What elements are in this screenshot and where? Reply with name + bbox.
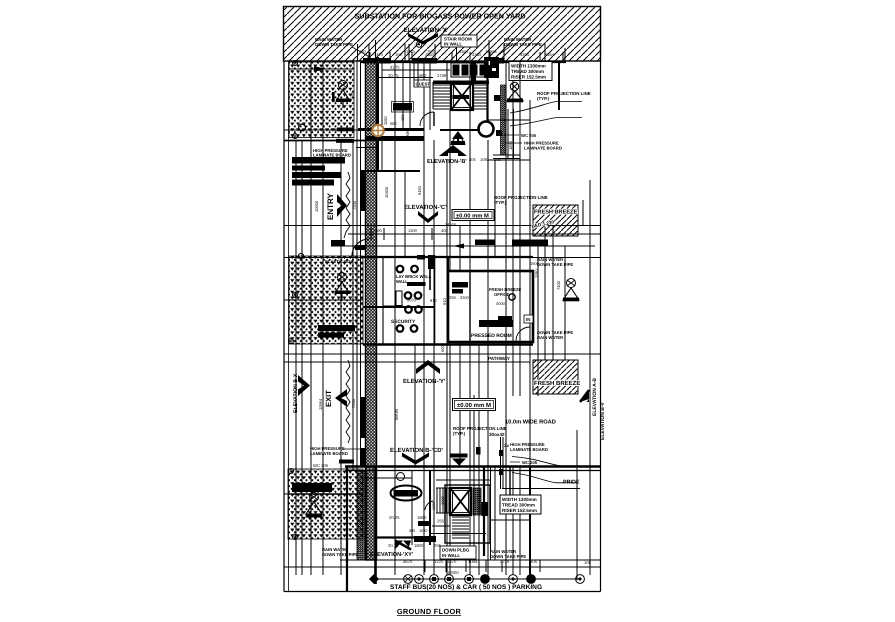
svg-text:1739: 1739	[437, 73, 447, 78]
survey marker B2	[288, 338, 293, 343]
bottom block right wall	[529, 466, 531, 580]
top block top wall	[360, 61, 566, 63]
svg-text:4364: 4364	[520, 52, 530, 57]
svg-text:20.75: 20.75	[389, 515, 400, 520]
svg-text:105: 105	[530, 559, 538, 564]
elevation B-X arrow	[298, 375, 310, 396]
hatched wall right of lift bottom	[473, 488, 481, 515]
svg-text:MC 207: MC 207	[331, 127, 346, 132]
stair room in wall box	[441, 35, 477, 47]
grid bubble diamond	[369, 574, 379, 584]
middle block top wall	[363, 256, 533, 258]
office door arc	[516, 327, 530, 341]
svg-text:LAMINATE BOARD: LAMINATE BOARD	[310, 451, 348, 456]
dark room top right	[484, 57, 499, 78]
down plbg in wall box	[440, 546, 476, 559]
svg-text:RISER 152.5mm: RISER 152.5mm	[511, 75, 546, 80]
roof curve lower 1	[512, 457, 580, 466]
svg-text:WIDTH 1300mm: WIDTH 1300mm	[502, 497, 537, 502]
top block lower wall line 2	[356, 147, 378, 149]
legend black bars block	[292, 157, 345, 186]
svg-text:ELEVATION B-V: ELEVATION B-V	[600, 401, 606, 440]
black bar at stipple A bottom	[337, 128, 354, 132]
svg-text:1150: 1150	[351, 92, 355, 100]
grid bubble 5	[465, 575, 474, 584]
toilet row 1	[397, 266, 418, 273]
vertical dim strip at 500	[501, 437, 504, 489]
svg-text:10.0m WIDE ROAD: 10.0m WIDE ROAD	[505, 420, 556, 426]
stipple A arrow marker	[314, 66, 327, 72]
svg-text:±0.00 mm M: ±0.00 mm M	[457, 402, 491, 409]
black bar in stipple B	[318, 325, 355, 331]
landing bar above lift	[433, 81, 489, 85]
spec box bottom	[500, 495, 541, 514]
survey marker B1	[292, 292, 297, 297]
svg-text:IN: IN	[526, 317, 530, 322]
black tick mid	[339, 460, 354, 464]
svg-text:ELEVATION-'C': ELEVATION-'C'	[404, 204, 447, 211]
long vertical gridlines	[296, 61, 590, 580]
fresh breeze hatch block lower	[533, 360, 578, 394]
svg-text:1094: 1094	[468, 559, 478, 564]
elevation-x arrow	[408, 33, 438, 45]
vertical black bar exit zone	[360, 397, 365, 438]
right dim strip verticals	[493, 109, 520, 159]
svg-text:(TYP.): (TYP.)	[453, 431, 466, 436]
roof curve lower 2	[512, 473, 578, 483]
stipple C inner line	[288, 493, 363, 495]
svg-text:ELEVATION-'Y': ELEVATION-'Y'	[403, 378, 446, 385]
wall segment y129 right	[440, 129, 480, 131]
black vertical bar right top	[476, 447, 481, 455]
top block left wall	[376, 57, 379, 171]
svg-text:7400: 7400	[556, 280, 561, 290]
svg-text:RISER 152.5mm: RISER 152.5mm	[502, 508, 537, 513]
svg-text:ELEVATION-'XY': ELEVATION-'XY'	[370, 552, 414, 558]
grid bubble 2	[415, 575, 424, 584]
tree symbol zone A	[336, 81, 351, 109]
stipple zone A	[289, 62, 354, 138]
svg-text:10964: 10964	[318, 398, 323, 410]
black bar in stipple C	[292, 483, 332, 492]
tree symbol zone B	[335, 273, 350, 301]
small marker triangle near 465	[451, 454, 468, 458]
dim line bottom	[405, 566, 530, 568]
treads below lift	[452, 517, 469, 538]
black bar above left wall	[360, 448, 366, 467]
svg-text:1009: 1009	[440, 495, 445, 505]
tree triangle right	[507, 91, 523, 101]
svg-text:LAMINATE BOARD: LAMINATE BOARD	[524, 146, 562, 151]
svg-text:1009: 1009	[432, 502, 436, 510]
black bar under wc wall	[366, 136, 424, 141]
lift core bottom	[450, 488, 471, 515]
black value rect	[418, 521, 431, 526]
black bar mid right	[512, 240, 548, 246]
svg-text:TREAD 300mm: TREAD 300mm	[511, 69, 544, 74]
tick marks mid row	[371, 228, 447, 240]
office outer wall	[448, 271, 533, 342]
desk outline	[392, 102, 414, 113]
elevation-x circle symbol	[416, 42, 422, 48]
high pressure note right	[505, 142, 522, 144]
black bar above pressed	[479, 320, 513, 327]
svg-text:DOWN TAKE PIPE: DOWN TAKE PIPE	[322, 552, 358, 557]
svg-text:4000: 4000	[496, 301, 506, 306]
small tree symbol in court	[451, 133, 465, 145]
svg-text:2250: 2250	[447, 295, 457, 300]
IN box	[524, 315, 533, 323]
level box 0.00 lower	[453, 399, 496, 411]
svg-text:30ox42: 30ox42	[489, 432, 505, 437]
svg-text:10000: 10000	[314, 200, 319, 212]
title hatch band	[284, 7, 601, 62]
top wall blob	[417, 255, 425, 260]
survey marker C2	[292, 534, 297, 539]
svg-text:31.75: 31.75	[390, 66, 400, 70]
elevation A-B arrow	[580, 390, 589, 402]
svg-text:TREAD 300mm: TREAD 300mm	[502, 503, 535, 508]
wall right of lift thick	[558, 62, 560, 110]
elevation-C arrow	[418, 211, 438, 223]
right border line	[600, 61, 602, 592]
svg-text:1860: 1860	[508, 140, 513, 150]
wavy expansion line upper	[344, 172, 350, 238]
grid bubble line	[374, 578, 580, 580]
orange utility circle	[372, 125, 384, 137]
big elevation-B arrow	[439, 145, 467, 156]
svg-text:PLASTIC BOX: PLASTIC BOX	[325, 259, 353, 264]
narrow hatched wall right	[501, 85, 506, 155]
svg-text:(TYP.): (TYP.)	[494, 200, 507, 205]
hatched wall strip	[366, 61, 377, 560]
svg-text:ELEVATION-'B': ELEVATION-'B'	[427, 159, 467, 165]
vertical black bar beside entry	[360, 172, 366, 211]
svg-text:1470: 1470	[447, 559, 457, 564]
svg-text:150: 150	[359, 49, 366, 54]
black bar mid 1	[475, 240, 496, 246]
svg-text:OFFICE: OFFICE	[494, 292, 510, 297]
partition wall 2	[382, 257, 384, 344]
svg-text:PATHWAY: PATHWAY	[488, 356, 510, 361]
GUEST room label	[414, 80, 430, 87]
svg-text:RAIN WATER: RAIN WATER	[537, 335, 563, 340]
svg-text:7200: 7200	[352, 200, 357, 210]
toilet row 3	[405, 306, 422, 313]
lift core top	[451, 82, 473, 110]
marker circle below entry	[298, 253, 303, 258]
column circle top block	[479, 122, 494, 137]
oval table office bottom	[391, 486, 422, 501]
bottom block extra lines	[432, 480, 530, 526]
svg-text:FRESH BREEZE: FRESH BREEZE	[534, 380, 580, 387]
lift mid black bar	[453, 95, 470, 99]
toilet row 4	[397, 325, 418, 332]
black bar at line 140	[336, 139, 354, 143]
top wall column blobs	[363, 58, 391, 64]
entry arrow	[337, 194, 347, 217]
svg-text:1800: 1800	[417, 515, 427, 520]
svg-text:GROUND FLOOR: GROUND FLOOR	[397, 607, 462, 616]
svg-text:305: 305	[494, 157, 501, 162]
left border inner line	[288, 61, 290, 592]
top block inner verticals	[414, 62, 520, 160]
svg-text:WC 205: WC 205	[521, 133, 537, 138]
svg-text:2729: 2729	[500, 559, 510, 564]
svg-text:SECURITY: SECURITY	[391, 319, 416, 325]
left arrow mid	[453, 244, 464, 249]
wc 205 note right	[500, 134, 519, 136]
svg-text:WC: WC	[390, 121, 397, 126]
svg-text:10400: 10400	[384, 186, 389, 198]
stipple zone B	[289, 256, 363, 344]
svg-text:305: 305	[469, 157, 476, 162]
svg-text:4470: 4470	[374, 52, 384, 57]
room small circle	[397, 473, 405, 481]
middle block bottom wall	[363, 343, 533, 345]
horizontal right line 505	[502, 488, 580, 490]
stairs spec box	[509, 62, 552, 81]
grid bubble 7	[509, 575, 518, 584]
vent circle symbol	[510, 82, 518, 90]
top right corner blob	[428, 255, 435, 269]
office chair circle	[509, 294, 515, 300]
svg-text:DOWN TAKE PIPE: DOWN TAKE PIPE	[315, 42, 353, 47]
partition wall y306	[383, 305, 403, 307]
wall under guest	[358, 128, 424, 131]
svg-text:(TYP.): (TYP.)	[537, 96, 550, 101]
svg-text:6000: 6000	[440, 342, 445, 352]
marker circle stipple A bottom	[299, 124, 306, 131]
svg-text:1220: 1220	[434, 559, 444, 564]
small up arrow	[452, 131, 464, 143]
bottom block top wall double	[345, 465, 600, 467]
svg-text:1100: 1100	[383, 116, 388, 125]
svg-text:IN WALL: IN WALL	[442, 553, 460, 558]
toilet row 2	[405, 292, 422, 299]
desk black office	[452, 282, 468, 288]
svg-text:PRIDE: PRIDE	[563, 480, 580, 486]
svg-text:ENTRY: ENTRY	[326, 193, 335, 220]
svg-text:EXIT: EXIT	[324, 390, 333, 407]
svg-text:PRESSED ROOM: PRESSED ROOM	[471, 333, 512, 339]
svg-text:FRESH BREEZE: FRESH BREEZE	[534, 210, 577, 216]
svg-text:305: 305	[409, 529, 415, 533]
grid bubble 1	[404, 575, 413, 584]
svg-text:ELEVATION A-B: ELEVATION A-B	[592, 378, 598, 416]
svg-text:WC 205: WC 205	[313, 463, 329, 468]
black bar in stipple B2	[318, 333, 344, 338]
svg-text:150: 150	[395, 52, 402, 57]
bottom block wall under office	[374, 536, 432, 538]
svg-text:1470: 1470	[406, 49, 416, 54]
black tag	[407, 282, 426, 286]
office top extension wall	[447, 257, 449, 271]
svg-text:±0.00 mm M: ±0.00 mm M	[456, 213, 489, 220]
svg-text:1190: 1190	[534, 269, 539, 278]
right wall bottom block	[483, 466, 485, 556]
bottom block core walls	[445, 485, 490, 543]
grid bubble 9	[576, 575, 585, 584]
partition wall vertical mid	[429, 257, 431, 290]
bottom border line	[284, 591, 601, 593]
band dim texts	[359, 49, 497, 54]
closet partition	[396, 291, 402, 306]
leader from right rain note	[497, 45, 512, 60]
svg-text:150: 150	[401, 115, 405, 121]
right wall of core	[486, 57, 488, 121]
door arc guest	[420, 112, 434, 126]
svg-text:2x: 2x	[504, 443, 509, 448]
survey marker A2	[292, 133, 297, 138]
svg-text:MAIN: MAIN	[394, 409, 399, 420]
stair treads right of lift	[473, 82, 487, 109]
dim strip blobs	[499, 450, 504, 456]
bottom block room partition vertical	[411, 470, 413, 545]
band grid stubs	[358, 40, 566, 61]
svg-text:2300: 2300	[460, 295, 470, 300]
svg-text:400: 400	[375, 228, 382, 233]
small tick bar stipple A	[332, 92, 335, 102]
svg-text:4364: 4364	[425, 52, 435, 57]
svg-text:IN WALL: IN WALL	[444, 42, 462, 47]
svg-text:4364: 4364	[459, 49, 469, 54]
office inner partition	[469, 271, 471, 342]
tree symbol right mid	[563, 279, 579, 302]
right wall mid block	[434, 255, 436, 344]
leader from left rain note	[352, 47, 368, 60]
tick marks row under band	[370, 52, 563, 60]
svg-text:9450: 9450	[417, 185, 422, 195]
door arc bottom	[425, 501, 433, 510]
bottom block left wall	[346, 466, 348, 591]
grid bubble 3	[430, 575, 439, 584]
bottom block room partition vertical 2	[429, 470, 431, 545]
svg-text:1800: 1800	[414, 543, 424, 548]
svg-text:1092: 1092	[419, 529, 427, 533]
svg-text:DOWN TAKE PIPE: DOWN TAKE PIPE	[504, 42, 542, 47]
tick marks bottom dims	[425, 560, 540, 572]
black rect below office	[498, 316, 512, 321]
svg-text:DOWN TAKE PIPE: DOWN TAKE PIPE	[537, 262, 573, 267]
svg-text:1390A: 1390A	[485, 49, 497, 54]
wall dim black rect	[414, 536, 436, 542]
exit arrow	[335, 389, 347, 407]
top block extra dim lines	[378, 62, 530, 160]
black bar right of lift top	[471, 61, 476, 84]
black blobs on right wall	[482, 502, 489, 516]
survey marker A1	[292, 60, 297, 65]
svg-text:4670: 4670	[403, 559, 413, 564]
dim row under band	[374, 52, 555, 57]
svg-text:STAFF BUS(20 NOS) & CAR ( 50 N: STAFF BUS(20 NOS) & CAR ( 50 NOS ) PARKI…	[390, 584, 542, 591]
grid bubble 4	[445, 575, 454, 584]
grid bubble 8	[527, 575, 536, 584]
bottom block room top wall	[361, 477, 412, 479]
svg-text:4164: 4164	[545, 52, 555, 57]
small rect right	[494, 95, 500, 101]
stipple A bottom thick line	[284, 140, 366, 142]
svg-text:14500: 14500	[445, 222, 457, 227]
fixtures cluster below band	[451, 63, 491, 77]
tree symbol zone C	[306, 493, 322, 518]
middle block partition wall y310	[363, 306, 435, 308]
door arc below entry	[352, 239, 369, 256]
elevation-Y arrow	[416, 360, 440, 374]
bottom block hatched wall strip	[357, 471, 367, 561]
top block lower wall line	[360, 170, 420, 172]
svg-text:DOWN PLBG: DOWN PLBG	[442, 548, 470, 553]
svg-text:105: 105	[584, 560, 592, 565]
svg-text:WC 205: WC 205	[522, 460, 538, 465]
desk black office2	[452, 289, 463, 294]
roof projection curve 1	[510, 102, 582, 114]
wc 205 lower note	[510, 461, 520, 463]
leader to laminate note	[343, 448, 369, 450]
elevation B-CD arrow	[402, 453, 429, 465]
black bar left of arc	[355, 245, 366, 250]
bottom inner wall right	[509, 466, 511, 495]
svg-text:LAMINATE BOARD: LAMINATE BOARD	[510, 447, 548, 452]
svg-text:WIDTH 1300mm: WIDTH 1300mm	[511, 64, 546, 69]
svg-text:1092: 1092	[480, 157, 490, 162]
roof projection curve 2	[510, 118, 582, 127]
level box 0.00	[452, 210, 494, 221]
svg-text:2070: 2070	[407, 298, 417, 303]
small black tick	[331, 240, 345, 247]
svg-text:7200: 7200	[351, 398, 356, 408]
stipple zone C	[288, 469, 363, 539]
svg-text:SUBSTATION FOR BIOGASS POWER O: SUBSTATION FOR BIOGASS POWER OPEN YARD	[354, 12, 525, 21]
left border line	[283, 61, 285, 592]
fresh breeze hatch block upper	[533, 205, 578, 236]
svg-text:1300: 1300	[408, 228, 418, 233]
survey marker C1	[288, 468, 293, 473]
top block left wall inner	[381, 62, 383, 170]
svg-text:WALL: WALL	[396, 279, 408, 284]
grid bubble 6	[481, 575, 490, 584]
stair treads left of lift	[433, 82, 451, 109]
desk black bar guest room	[393, 103, 412, 111]
elevation-XY arrow	[395, 541, 411, 550]
small rect core	[496, 130, 502, 136]
bottom block left wall 2	[374, 466, 377, 584]
svg-text:LAMINATE BOARD: LAMINATE BOARD	[313, 153, 351, 158]
svg-text:ELEVATION-'X': ELEVATION-'X'	[403, 27, 449, 34]
treads left of lift bottom	[436, 488, 450, 513]
svg-text:255: 255	[437, 519, 445, 524]
long horizontal gridlines	[284, 69, 600, 567]
svg-text:ELEVATION B-'CD': ELEVATION B-'CD'	[390, 447, 444, 454]
wavy expansion line lower	[346, 360, 350, 443]
svg-text:4364: 4364	[472, 52, 482, 57]
